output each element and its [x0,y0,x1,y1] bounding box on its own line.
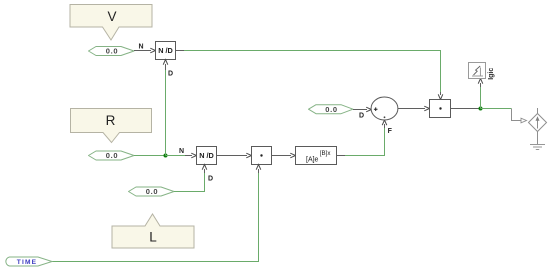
svg-text:0.0: 0.0 [106,47,119,56]
controlled current source CS1 [529,108,547,132]
svg-text:D: D [208,175,213,182]
wire R pill to junction [134,155,166,157]
callout R [71,109,152,143]
constant V pill 0.0 [89,47,135,56]
ground [530,145,545,150]
probe P1 [469,63,486,79]
divider block U1 N/D [156,42,176,60]
svg-text:TIME: TIME [17,259,38,266]
svg-text:[B]x: [B]x [320,150,332,157]
callout L [112,214,194,248]
wire junction to U2 N input [166,153,197,158]
svg-text:0.0: 0.0 [106,151,119,160]
svg-text:F: F [388,128,393,135]
exponential block [A]e^[B]x [296,147,337,165]
node junction J2 [479,107,483,111]
svg-text:[A]e: [A]e [306,156,319,163]
svg-text:N /D: N /D [199,151,214,160]
wire J2 to controlled source [481,109,527,123]
TIME source [6,257,52,266]
wire D pill to summer [353,107,371,112]
svg-text:V: V [107,9,116,24]
wire V pill to N/D1 [134,48,156,53]
svg-text:Igic: Igic [488,68,495,80]
svg-text:N: N [138,43,143,50]
svg-text:D: D [168,71,173,78]
node junction J1 [164,154,168,158]
wire J2 up to probe [478,79,483,109]
wire U1 output to multiplier M2 top [176,51,443,100]
multiplier block M1 [252,147,272,165]
wire M1 output to exp block [272,153,296,158]
multiplier block M2 [430,100,451,118]
constant L pill 0.0 [129,187,175,196]
wire summer output to multiplier M2 [398,106,430,111]
svg-text:0.0: 0.0 [325,105,338,114]
wire CS1 to ground [537,132,539,145]
divider block U2 N/D [197,147,217,165]
svg-text:L: L [149,230,157,245]
wire L pill to U2 D input [174,165,207,192]
summer S1 [371,97,398,120]
svg-text:R: R [106,113,116,128]
svg-text:N /D: N /D [158,46,173,55]
wire exp output to summer F input [337,120,387,156]
constant D pill 0.0 [309,105,354,114]
svg-text:0.0: 0.0 [146,187,159,196]
constant R pill 0.0 [89,151,135,160]
svg-text:D: D [359,113,364,120]
wire U2 output to multiplier M1 [217,153,252,158]
wire TIME to M1 bottom input [52,165,261,262]
wire junction up to U1 D input [163,60,168,156]
wire M2 output to junction J2 [451,108,481,110]
callout V [70,5,152,41]
svg-text:N: N [179,148,184,155]
